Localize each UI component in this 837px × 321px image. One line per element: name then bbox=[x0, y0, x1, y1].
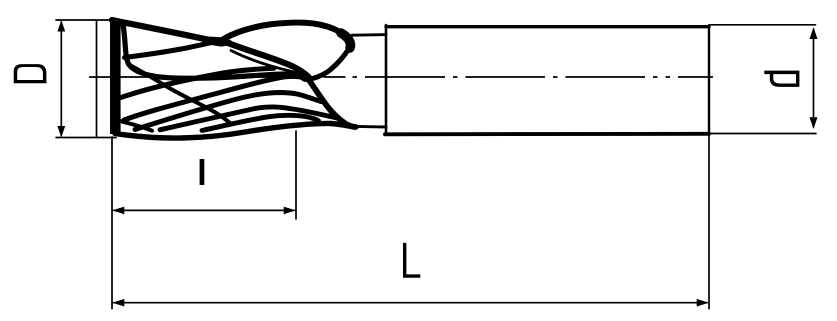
thin sliver line under lobe bbox=[231, 51, 306, 79]
right extension line (shank end) for L bbox=[708, 136, 710, 309]
flute lobe top edge bbox=[222, 23, 350, 47]
cutter bottom edge (undulating) bbox=[115, 123, 356, 138]
d dim arrow down bbox=[810, 117, 818, 129]
flute lobe right side bbox=[307, 47, 351, 80]
cutter end face bbox=[110, 20, 121, 134]
l dimension line bbox=[114, 209, 295, 211]
d bottom extension line bbox=[709, 133, 816, 135]
lobe tip bulge bbox=[341, 33, 351, 48]
descent from lobe junction to neck corner bbox=[308, 79, 355, 128]
cutter top edge bbox=[112, 20, 215, 41]
label d (rotated) bbox=[764, 71, 799, 87]
centerline (dash-dot axis) bbox=[89, 76, 713, 78]
L dimension line bbox=[114, 302, 708, 304]
J-stroke (flute edge hugging face then sweeping right) bbox=[123, 25, 307, 79]
D thin vertical connector bbox=[96, 21, 98, 137]
l extension line (right) bbox=[295, 131, 297, 219]
helix stroke R3 bbox=[135, 93, 321, 130]
helix stroke R4 bbox=[160, 107, 336, 130]
label D (rotated) bbox=[14, 64, 47, 83]
d dimension line bbox=[813, 29, 815, 127]
junction blob V1 bbox=[299, 73, 311, 83]
D dim arrow down bbox=[57, 126, 65, 138]
label L bbox=[403, 243, 420, 278]
flute stroke to knot (parallel below top edge) bbox=[125, 41, 219, 58]
L dim arrow right bbox=[697, 299, 709, 307]
D top extension line bbox=[56, 19, 111, 21]
flute lobe bottom diagonal (leading edge) bbox=[224, 42, 309, 78]
left extension line (tip face) bbox=[111, 137, 113, 309]
knot blob bbox=[203, 36, 232, 46]
d top extension line bbox=[709, 24, 816, 26]
triangle top stub bbox=[120, 121, 152, 131]
neck bottom line bbox=[353, 125, 386, 128]
l dim arrow right bbox=[284, 207, 296, 215]
neck top line bbox=[352, 33, 386, 37]
l dim arrow left bbox=[112, 207, 124, 215]
D dimension line bbox=[60, 22, 62, 136]
d dim arrow up bbox=[810, 27, 818, 39]
D dim arrow up bbox=[57, 20, 65, 32]
D bottom extension line bbox=[56, 137, 116, 139]
L dim arrow left bbox=[112, 299, 124, 307]
helix stroke R1 bbox=[121, 68, 274, 97]
shank body bbox=[385, 25, 709, 135]
helix stroke R5 bbox=[202, 115, 319, 130]
label l bbox=[200, 159, 205, 185]
crossing flute stroke (second flute edge) bbox=[128, 64, 230, 123]
helix stroke R2 bbox=[124, 77, 305, 121]
